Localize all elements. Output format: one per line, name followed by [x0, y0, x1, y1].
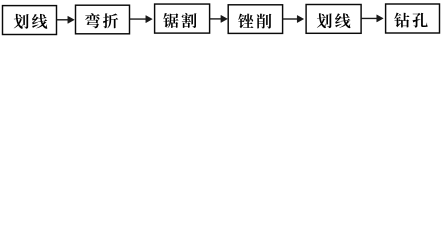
process box 弯折 (step 2) — [76, 5, 130, 34]
label 锯割 — [163, 13, 196, 28]
process box 划线 (step 1) — [3, 6, 57, 35]
arrow 2: 弯折 to 锯割 — [130, 16, 153, 23]
process box 锯割 (step 3) — [155, 4, 210, 33]
label 钻孔 — [394, 13, 427, 28]
arrow 4: 锉削 to 划线 — [283, 15, 304, 22]
process box 钻孔 (step 6) — [386, 4, 440, 33]
arrow 1: 划线 to 弯折 — [57, 16, 75, 23]
process box 锉削 (step 4) — [228, 5, 282, 34]
label 划线 — [14, 14, 48, 29]
label 划线 — [317, 13, 351, 28]
label 锉削 — [238, 14, 271, 29]
arrow 5: 划线 to 钻孔 — [361, 15, 383, 22]
label 弯折 — [85, 13, 118, 28]
process box 划线 (step 5) — [306, 5, 361, 34]
arrow 3: 锯割 to 锉削 — [210, 15, 228, 22]
